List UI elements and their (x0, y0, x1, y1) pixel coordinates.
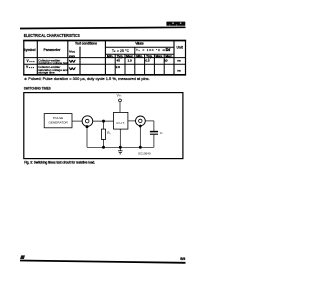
svg-text:V₀₁₂: V₀₁₂ (27, 59, 36, 63)
svg-text:Parameter: Parameter (44, 48, 62, 52)
svg-text:PULSE: PULSE (53, 116, 63, 120)
svg-text:Values: Values (135, 42, 144, 46)
svg-text:88: 88 (69, 54, 75, 58)
svg-text:45: 45 (116, 58, 120, 62)
svg-text:5/9: 5/9 (180, 257, 185, 261)
svg-text:0.5: 0.5 (145, 58, 150, 62)
svg-text:Max.: Max. (156, 54, 164, 58)
svg-text:V₀₁₂: V₀₁₂ (26, 65, 35, 69)
svg-text:Symbol: Symbol (23, 48, 35, 52)
svg-text:SWITCHING TIMES: SWITCHING TIMES (24, 86, 51, 91)
svg-text:ELECTRICAL CHARACTERISTICS: ELECTRICAL CHARACTERISTICS (24, 33, 80, 38)
svg-text:R₁: R₁ (107, 131, 110, 135)
svg-text:Min.: Min. (107, 54, 114, 58)
svg-text:Test conditions: Test conditions (75, 42, 97, 46)
svg-text:Vₖₖ: Vₖₖ (117, 94, 123, 98)
svg-text:10: 10 (164, 58, 168, 62)
svg-text:Tₖ = 25 °C: Tₖ = 25 °C (112, 49, 130, 53)
svg-text:2.0: 2.0 (116, 65, 121, 69)
svg-text:Vcc: Vcc (69, 50, 76, 54)
svg-text:ns: ns (177, 69, 181, 73)
svg-text:Min.: Min. (136, 54, 143, 58)
svg-text:GENERATOR: GENERATOR (48, 121, 68, 125)
svg-text:ns: ns (177, 59, 181, 63)
svg-text:Dr: Dr (166, 47, 171, 52)
svg-text:D.U.T.: D.U.T. (117, 121, 126, 125)
svg-text:∗ Pulsed: Pulse duration = 300: ∗ Pulsed: Pulse duration = 300 µs, duty … (24, 77, 150, 81)
svg-text:Fig. 3: Switching times test c: Fig. 3: Switching times test circuit for… (24, 160, 95, 164)
svg-text:1.0: 1.0 (127, 58, 132, 62)
svg-text:Unit: Unit (176, 45, 183, 49)
svg-text:SC10540: SC10540 (138, 152, 151, 156)
svg-text:storage time: storage time (38, 71, 55, 75)
svg-text:Cₗ: Cₗ (160, 131, 163, 135)
